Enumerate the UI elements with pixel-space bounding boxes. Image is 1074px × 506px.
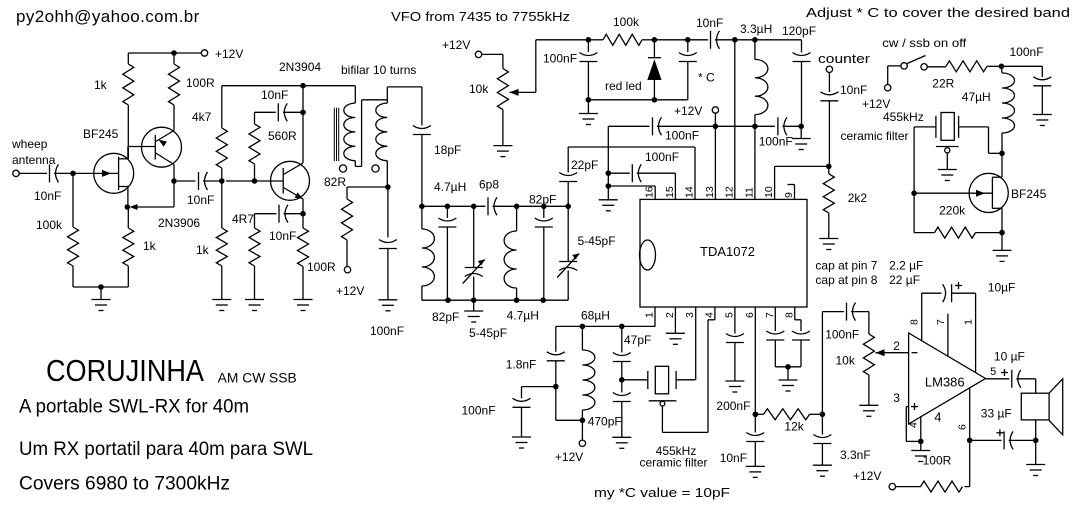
svg-text:A portable SWL-RX for 40m: A portable SWL-RX for 40m: [19, 396, 249, 418]
svg-text:100nF: 100nF: [645, 150, 679, 164]
svg-text:1.8nF: 1.8nF: [506, 358, 537, 372]
svg-text:1: 1: [963, 319, 975, 325]
svg-text:6p8: 6p8: [479, 178, 499, 192]
svg-text:12: 12: [723, 186, 735, 198]
svg-text:100nF: 100nF: [370, 324, 404, 338]
svg-text:py2ohh@yahoo.com.br: py2ohh@yahoo.com.br: [16, 7, 200, 26]
svg-text:cap at pin 7: cap at pin 7: [815, 259, 877, 273]
svg-text:counter: counter: [818, 52, 870, 66]
svg-text:10nF: 10nF: [696, 16, 723, 30]
svg-text:6: 6: [957, 424, 969, 430]
svg-text:2: 2: [893, 339, 900, 353]
svg-text:4.7µH: 4.7µH: [434, 180, 466, 194]
svg-text:100nF: 100nF: [825, 328, 859, 342]
svg-text:10 µF: 10 µF: [994, 350, 1025, 364]
svg-text:10: 10: [763, 186, 775, 198]
svg-text:1k: 1k: [143, 239, 157, 253]
svg-text:560R: 560R: [268, 129, 297, 143]
svg-text:68µH: 68µH: [581, 309, 610, 323]
svg-text:4.7µH: 4.7µH: [507, 309, 539, 323]
svg-text:3.3nF: 3.3nF: [840, 448, 871, 462]
svg-text:10nF: 10nF: [187, 193, 214, 207]
svg-text:100k: 100k: [613, 15, 640, 29]
svg-text:1k: 1k: [94, 78, 108, 92]
svg-text:7: 7: [764, 312, 776, 318]
svg-text:470pF: 470pF: [588, 415, 622, 429]
svg-text:2k2: 2k2: [848, 191, 868, 205]
svg-text:10k: 10k: [836, 354, 856, 368]
svg-text:9: 9: [783, 192, 795, 198]
svg-text:Covers 6980 to 7300kHz: Covers 6980 to 7300kHz: [19, 473, 230, 495]
svg-text:1k: 1k: [196, 243, 210, 257]
svg-text:2.2 µF: 2.2 µF: [889, 259, 923, 273]
svg-text:Um RX portatil para 40m para S: Um RX portatil para 40m para SWL: [19, 438, 313, 460]
svg-text:+12V: +12V: [215, 47, 243, 61]
svg-text:5: 5: [990, 366, 996, 378]
svg-text:red led: red led: [605, 79, 642, 93]
svg-text:10nF: 10nF: [34, 189, 61, 203]
svg-text:+12V: +12V: [336, 284, 364, 298]
svg-text:200nF: 200nF: [716, 399, 750, 413]
svg-text:10nF: 10nF: [840, 83, 867, 97]
svg-text:+12V: +12V: [853, 469, 881, 483]
svg-text:+12V: +12V: [862, 97, 890, 111]
svg-text:AM CW SSB: AM CW SSB: [218, 371, 297, 386]
svg-text:BF245: BF245: [83, 127, 119, 141]
svg-text:12k: 12k: [784, 420, 804, 434]
svg-text:cw / ssb on off: cw / ssb on off: [882, 36, 967, 50]
svg-text:47pF: 47pF: [624, 333, 651, 347]
svg-text:82R: 82R: [324, 175, 346, 189]
svg-text:ceramic filter: ceramic filter: [841, 129, 909, 143]
svg-text:100nF: 100nF: [462, 404, 496, 418]
svg-text:10nF: 10nF: [720, 451, 747, 465]
svg-text:8: 8: [909, 319, 921, 325]
svg-text:82pF: 82pF: [529, 193, 556, 207]
svg-text:10nF: 10nF: [261, 88, 288, 102]
svg-text:3: 3: [684, 312, 696, 318]
svg-text:100nF: 100nF: [759, 135, 793, 149]
svg-text:100R: 100R: [186, 76, 215, 90]
svg-text:4: 4: [703, 312, 715, 318]
svg-text:22 µF: 22 µF: [889, 273, 920, 287]
svg-text:wheep: wheep: [11, 137, 48, 151]
svg-text:4: 4: [908, 422, 920, 428]
svg-text:3: 3: [893, 391, 900, 405]
svg-text:my *C value = 10pF: my *C value = 10pF: [594, 485, 730, 500]
svg-text:4: 4: [934, 410, 941, 425]
svg-text:3.3µH: 3.3µH: [740, 22, 772, 36]
svg-text:7: 7: [935, 319, 947, 325]
svg-text:* C: * C: [698, 71, 715, 85]
svg-text:100nF: 100nF: [665, 129, 699, 143]
svg-text:18pF: 18pF: [434, 143, 461, 157]
svg-text:100R: 100R: [923, 454, 952, 468]
svg-text:+12V: +12V: [442, 38, 470, 52]
svg-text:16: 16: [644, 186, 656, 198]
svg-text:+12V: +12V: [674, 104, 702, 118]
svg-text:22R: 22R: [932, 77, 954, 91]
svg-text:100nF: 100nF: [1010, 45, 1044, 59]
svg-text:33 µF: 33 µF: [981, 407, 1012, 421]
svg-text:4R7: 4R7: [232, 212, 254, 226]
svg-text:LM386: LM386: [925, 375, 965, 390]
svg-text:+12V: +12V: [555, 450, 583, 464]
svg-text:Adjust * C to cover the desire: Adjust * C to cover the desired band: [806, 6, 1070, 20]
svg-text:100R: 100R: [307, 260, 336, 274]
svg-text:11: 11: [743, 187, 755, 198]
svg-text:cap at pin 8: cap at pin 8: [815, 273, 877, 287]
svg-text:22pF: 22pF: [571, 158, 598, 172]
svg-text:5: 5: [723, 312, 735, 318]
svg-text:ceramic filter: ceramic filter: [639, 456, 707, 470]
svg-text:47µH: 47µH: [962, 90, 991, 104]
svg-text:2N3904: 2N3904: [279, 60, 321, 74]
svg-text:455kHz: 455kHz: [883, 110, 924, 124]
svg-text:15: 15: [664, 186, 676, 198]
svg-text:10µF: 10µF: [988, 281, 1016, 295]
svg-text:14: 14: [684, 186, 696, 198]
svg-text:CORUJINHA: CORUJINHA: [46, 354, 205, 388]
svg-text:8: 8: [783, 312, 795, 318]
svg-text:10k: 10k: [469, 82, 489, 96]
svg-text:bifilar 10 turns: bifilar 10 turns: [341, 63, 416, 77]
svg-text:4k7: 4k7: [192, 110, 212, 124]
svg-text:5-45pF: 5-45pF: [469, 326, 507, 340]
svg-text:82pF: 82pF: [432, 310, 459, 324]
svg-text:100k: 100k: [36, 218, 63, 232]
svg-text:2: 2: [664, 312, 676, 318]
svg-text:100nF: 100nF: [543, 52, 577, 66]
svg-text:13: 13: [704, 186, 716, 198]
svg-text:10nF: 10nF: [269, 229, 296, 243]
svg-text:2N3906: 2N3906: [158, 216, 200, 230]
svg-text:6: 6: [744, 312, 756, 318]
svg-text:5-45pF: 5-45pF: [578, 234, 616, 248]
svg-text:BF245: BF245: [1011, 187, 1047, 201]
svg-text:220k: 220k: [939, 204, 966, 218]
svg-text:1: 1: [644, 312, 656, 318]
svg-text:VFO from 7435 to 7755kHz: VFO from 7435 to 7755kHz: [391, 10, 570, 24]
svg-text:120pF: 120pF: [782, 24, 816, 38]
svg-text:TDA1072: TDA1072: [700, 244, 755, 259]
